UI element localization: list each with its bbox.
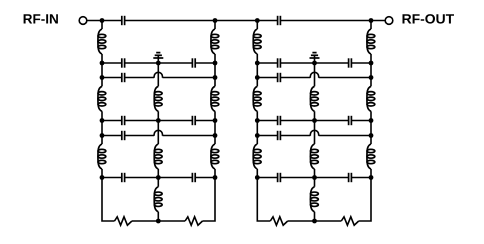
junction dot <box>312 219 317 224</box>
inductor L12 <box>253 144 261 169</box>
capacitor C6 <box>192 116 195 125</box>
junction dot <box>369 75 374 80</box>
wire: right rail F to bottom corner <box>203 178 216 222</box>
junction dot <box>369 61 374 66</box>
wire <box>256 121 258 136</box>
junction dot <box>255 175 260 180</box>
junction dot <box>369 175 374 180</box>
wire <box>288 220 315 222</box>
terminal RF-OUT <box>385 17 393 25</box>
wire hop (no-connect crossover) <box>154 72 162 77</box>
wire <box>195 120 215 122</box>
junction dot <box>255 75 260 80</box>
wire: left rail F to bottom corner <box>257 178 270 222</box>
wire <box>101 54 103 63</box>
junction dot <box>213 118 218 123</box>
wire <box>314 111 316 120</box>
label RF-OUT <box>403 14 455 24</box>
wire <box>125 135 155 137</box>
junction dot <box>100 133 105 138</box>
wire <box>256 111 258 120</box>
wire <box>125 62 159 64</box>
wire <box>319 77 371 79</box>
junction dot <box>213 61 218 66</box>
wire <box>315 62 349 64</box>
wire <box>280 135 310 137</box>
wire <box>158 177 192 179</box>
wire <box>158 120 192 122</box>
inductor L11 <box>253 86 261 111</box>
wire <box>315 177 349 179</box>
wire: right rail F to bottom corner <box>359 178 371 222</box>
wire <box>314 63 316 86</box>
wire <box>102 120 122 122</box>
ground <box>153 53 163 63</box>
capacitor C5 <box>122 116 125 125</box>
junction dot <box>255 118 260 123</box>
inductor L1 <box>98 29 106 54</box>
junction dot <box>312 118 317 123</box>
wire <box>101 78 103 87</box>
wire hop (no-connect crossover) <box>310 72 318 77</box>
junction dot <box>255 61 260 66</box>
wire <box>280 62 314 64</box>
resistor R1 <box>115 217 132 225</box>
terminal RF-IN <box>79 17 87 25</box>
wire <box>314 121 316 145</box>
wire <box>101 63 103 78</box>
inductor L13 <box>310 86 318 111</box>
wire hop (no-connect crossover) <box>154 130 162 135</box>
ground <box>310 53 320 63</box>
wire <box>195 62 215 64</box>
wire <box>163 135 216 137</box>
wire <box>257 62 277 64</box>
wire: C10 to RF-OUT <box>280 20 385 22</box>
wire <box>256 78 258 87</box>
wire <box>351 120 371 122</box>
wire <box>132 220 158 222</box>
wire <box>370 54 372 63</box>
junction dot <box>213 133 218 138</box>
junction dot <box>369 118 374 123</box>
junction dot <box>100 61 105 66</box>
junction dot <box>100 118 105 123</box>
inductor L17 <box>367 86 375 111</box>
junction dot <box>213 75 218 80</box>
wire: C1 to C10 <box>125 20 278 22</box>
wire <box>102 177 122 179</box>
junction dot <box>100 175 105 180</box>
capacitor C18 <box>349 173 352 182</box>
wire <box>101 121 103 136</box>
wire <box>157 212 159 221</box>
capacitor C7 <box>122 131 125 140</box>
junction dot <box>213 18 218 23</box>
wire <box>315 120 349 122</box>
inductor L7 <box>211 29 219 54</box>
wire <box>314 212 316 221</box>
wire <box>370 111 372 120</box>
wire <box>257 120 277 122</box>
junction dot <box>255 18 260 23</box>
wire <box>314 169 316 178</box>
wire <box>351 177 371 179</box>
wire <box>370 169 372 178</box>
capacitor C3 <box>192 58 195 67</box>
capacitor C2 <box>122 58 125 67</box>
junction dot <box>369 18 374 23</box>
wire <box>101 169 103 178</box>
wire <box>163 77 216 79</box>
capacitor C16 <box>278 131 281 140</box>
junction dot <box>100 75 105 80</box>
wire <box>214 21 216 30</box>
junction dot <box>156 61 161 66</box>
capacitor C10 <box>278 16 281 25</box>
capacitor C17 <box>278 173 281 182</box>
wire <box>214 121 216 136</box>
capacitor C9 <box>192 173 195 182</box>
wire <box>157 111 159 120</box>
wire <box>370 78 372 87</box>
capacitor C11 <box>278 58 281 67</box>
wire <box>256 21 258 30</box>
wire <box>351 62 371 64</box>
wire <box>370 121 372 136</box>
inductor L3 <box>98 144 106 169</box>
wire <box>256 136 258 145</box>
wire <box>315 220 342 222</box>
wire <box>256 63 258 78</box>
capacitor C14 <box>278 116 281 125</box>
resistor R2 <box>185 217 202 225</box>
wire: RF-IN to C1 <box>87 20 122 22</box>
wire <box>125 120 159 122</box>
wire <box>319 135 371 137</box>
wire <box>102 135 122 137</box>
junction dot <box>255 133 260 138</box>
capacitor C1 <box>122 16 125 25</box>
wire <box>102 77 122 79</box>
inductor L6 <box>154 187 162 212</box>
capacitor C12 <box>349 58 352 67</box>
inductor L18 <box>367 144 375 169</box>
inductor L4 <box>154 86 162 111</box>
wire <box>195 177 215 179</box>
inductor L5 <box>154 144 162 169</box>
wire <box>214 136 216 145</box>
junction dot <box>312 61 317 66</box>
junction dot <box>369 133 374 138</box>
junction dot <box>213 175 218 180</box>
wire <box>101 21 103 30</box>
junction dot <box>156 118 161 123</box>
wire <box>157 121 159 145</box>
wire <box>101 136 103 145</box>
wire <box>257 135 277 137</box>
wire <box>256 169 258 178</box>
capacitor C8 <box>122 173 125 182</box>
junction dot <box>156 219 161 224</box>
junction dot <box>156 175 161 180</box>
capacitor C15 <box>349 116 352 125</box>
wire <box>157 63 159 86</box>
wire <box>280 177 314 179</box>
inductor L8 <box>211 86 219 111</box>
wire <box>370 21 372 30</box>
wire <box>214 63 216 78</box>
wire <box>214 54 216 63</box>
wire <box>158 220 185 222</box>
inductor L16 <box>367 29 375 54</box>
wire <box>256 54 258 63</box>
wire <box>214 169 216 178</box>
wire <box>370 136 372 145</box>
wire <box>214 111 216 120</box>
junction dot <box>100 18 105 23</box>
wire <box>102 62 122 64</box>
wire <box>125 177 159 179</box>
wire <box>314 178 316 187</box>
inductor L10 <box>253 29 261 54</box>
resistor R4 <box>341 217 358 225</box>
wire <box>257 77 277 79</box>
inductor L2 <box>98 86 106 111</box>
label RF-IN <box>24 14 58 23</box>
wire: left rail F to bottom corner <box>102 178 115 222</box>
inductor L15 <box>310 187 318 212</box>
wire <box>125 77 155 79</box>
wire <box>257 177 277 179</box>
junction dot <box>312 175 317 180</box>
inductor L14 <box>310 144 318 169</box>
wire <box>214 78 216 87</box>
wire <box>101 111 103 120</box>
wire hop (no-connect crossover) <box>310 130 318 135</box>
wire <box>280 77 310 79</box>
wire <box>158 62 192 64</box>
wire <box>280 120 314 122</box>
inductor L9 <box>211 144 219 169</box>
resistor R3 <box>270 217 287 225</box>
wire <box>157 178 159 187</box>
wire <box>370 63 372 78</box>
capacitor C13 <box>278 73 281 82</box>
capacitor C4 <box>122 73 125 82</box>
wire <box>157 169 159 178</box>
